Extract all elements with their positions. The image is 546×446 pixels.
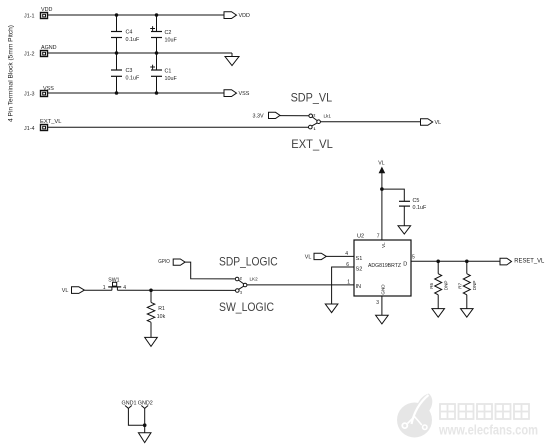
svg-text:4 Pin Terminal Block (5mm Pitc: 4 Pin Terminal Block (5mm Pitch): [9, 25, 15, 122]
svg-text:ADG819BRTZ: ADG819BRTZ: [368, 263, 401, 269]
svg-text:10k: 10k: [157, 314, 166, 320]
wire S2 to ground: [332, 267, 354, 304]
wire D to RESET_VL: [411, 260, 500, 262]
port VL (right): [421, 119, 442, 126]
svg-text:C4: C4: [126, 30, 133, 36]
ground AGND: [225, 53, 239, 66]
watermark logo: [397, 394, 432, 438]
svg-text:SDP_VL: SDP_VL: [291, 92, 333, 105]
svg-text:RESET_VL: RESET_VL: [514, 259, 545, 265]
svg-text:VL: VL: [378, 161, 384, 167]
svg-text:EXT_VL: EXT_VL: [291, 138, 333, 151]
wire EXT_VL: [48, 126, 309, 128]
svg-text:S2: S2: [356, 267, 363, 273]
node junction R1: [149, 289, 153, 293]
node junction R7: [465, 260, 469, 264]
ground R6: [432, 309, 445, 318]
port 3.3V: [253, 112, 281, 119]
op-amp U2 (analog switch ADG819BRTZ): [354, 233, 411, 296]
wire IN from LK2: [247, 284, 354, 286]
svg-text:R1: R1: [158, 306, 165, 312]
svg-text:0.1uF: 0.1uF: [126, 37, 140, 43]
svg-text:VL: VL: [435, 120, 442, 126]
svg-text:1: 1: [103, 285, 106, 291]
wire AGND rail: [48, 52, 233, 54]
svg-text:D: D: [403, 261, 407, 267]
ground GND1/GND2: [138, 433, 151, 443]
ground R7: [461, 309, 474, 318]
port RESET_VL: [500, 258, 545, 265]
wire LK1 to VL port: [320, 121, 420, 123]
svg-text:3: 3: [376, 300, 379, 306]
resistor R1: [147, 290, 165, 337]
jumper LK2: [235, 277, 258, 295]
svg-text:LK2: LK2: [250, 277, 259, 282]
svg-text:SDP_LOGIC: SDP_LOGIC: [219, 254, 278, 268]
port VL to SW1: [62, 287, 85, 294]
watermark text: [440, 404, 529, 419]
svg-text:J1-3: J1-3: [24, 92, 35, 98]
power VL arrow: [378, 161, 385, 240]
port GPIO: [158, 259, 185, 266]
svg-text:U2: U2: [357, 234, 364, 240]
svg-text:AGND: AGND: [41, 45, 57, 51]
svg-text:0.1uF: 0.1uF: [126, 76, 140, 82]
svg-text:www.elecfans.com: www.elecfans.com: [438, 423, 538, 438]
svg-text:GND1: GND1: [122, 401, 137, 407]
node junction VL/C5: [380, 187, 384, 191]
svg-text:S1: S1: [356, 256, 363, 262]
wire VSS rail: [48, 92, 225, 94]
svg-text:VSS: VSS: [43, 86, 54, 92]
node junction row1 colB: [155, 13, 159, 17]
wire SW1 to LK2: [117, 289, 235, 291]
node junction row3 colA: [115, 91, 119, 95]
node junction row2 colA: [115, 51, 119, 55]
svg-text:VL: VL: [305, 254, 312, 260]
capacitor C4: [111, 15, 140, 53]
port VL to S1: [305, 253, 327, 260]
wire VDD rail: [48, 14, 225, 16]
port VDD: [224, 12, 250, 19]
svg-text:DNP: DNP: [472, 280, 477, 290]
svg-text:7: 7: [377, 233, 380, 239]
port VSS: [224, 90, 250, 97]
capacitor C2: [150, 15, 177, 53]
svg-text:J1-1: J1-1: [24, 14, 35, 20]
ground U2: [376, 315, 389, 324]
svg-text:IN: IN: [356, 284, 362, 290]
svg-text:1: 1: [314, 127, 316, 131]
svg-text:3.3V: 3.3V: [253, 113, 264, 119]
switch SW1: [103, 278, 127, 292]
node junction R6: [436, 260, 440, 264]
ground C5: [398, 226, 411, 234]
svg-text:GND2: GND2: [138, 401, 153, 407]
port GND1: [122, 401, 137, 409]
svg-text:GND: GND: [381, 284, 386, 295]
wire GND pin: [381, 296, 383, 315]
svg-text:2: 2: [313, 113, 315, 117]
svg-text:1: 1: [240, 291, 242, 295]
wire GND2: [144, 408, 146, 432]
svg-text:VL: VL: [381, 242, 386, 248]
connector J1-1: [24, 13, 48, 20]
svg-text:C3: C3: [126, 68, 133, 74]
resistor R6: [429, 261, 449, 308]
svg-text:Lk1: Lk1: [324, 113, 332, 118]
svg-text:C1: C1: [165, 68, 172, 74]
svg-text:EXT_VL: EXT_VL: [40, 119, 62, 125]
wire GPIO to LK2: [185, 262, 235, 279]
node junction row2 colB: [155, 51, 159, 55]
svg-text:R7: R7: [458, 282, 463, 288]
svg-text:0.1uF: 0.1uF: [413, 205, 427, 211]
port GND2: [138, 401, 153, 409]
node junction row3 colB: [155, 91, 159, 95]
wire 3.3V to LK1: [280, 115, 309, 117]
svg-text:C5: C5: [413, 198, 420, 204]
svg-text:5: 5: [412, 255, 415, 261]
node junction GND: [143, 423, 147, 427]
resistor R7: [458, 261, 478, 308]
svg-text:VDD: VDD: [41, 7, 52, 13]
svg-text:GPIO: GPIO: [158, 259, 170, 265]
wire S1: [326, 255, 354, 257]
svg-text:SW_LOGIC: SW_LOGIC: [219, 300, 274, 314]
svg-text:VSS: VSS: [239, 91, 250, 97]
connector J1-2: [24, 51, 48, 58]
svg-text:R6: R6: [429, 282, 434, 288]
capacitor C3: [111, 53, 140, 93]
svg-text:DNP: DNP: [444, 280, 449, 290]
node junction row1 colA: [115, 13, 119, 17]
capacitor C5: [399, 198, 427, 226]
svg-text:10uF: 10uF: [165, 37, 178, 43]
ground S2: [325, 304, 338, 313]
connector J1-4: [24, 125, 48, 133]
wire GND1: [128, 408, 144, 425]
capacitor C1: [150, 53, 177, 93]
svg-text:SW1: SW1: [108, 278, 119, 284]
svg-text:2: 2: [240, 277, 242, 281]
svg-text:10uF: 10uF: [165, 76, 178, 82]
svg-text:J1-2: J1-2: [24, 52, 35, 58]
svg-text:VDD: VDD: [239, 13, 250, 19]
ground R1: [145, 337, 158, 346]
connector J1-3: [24, 91, 48, 98]
wire VL to SW1: [84, 289, 112, 291]
jumper LK1: [309, 113, 332, 131]
svg-text:J1-4: J1-4: [24, 126, 35, 132]
wire to C5: [382, 189, 404, 201]
svg-text:C2: C2: [165, 30, 172, 36]
svg-text:VL: VL: [62, 288, 69, 294]
